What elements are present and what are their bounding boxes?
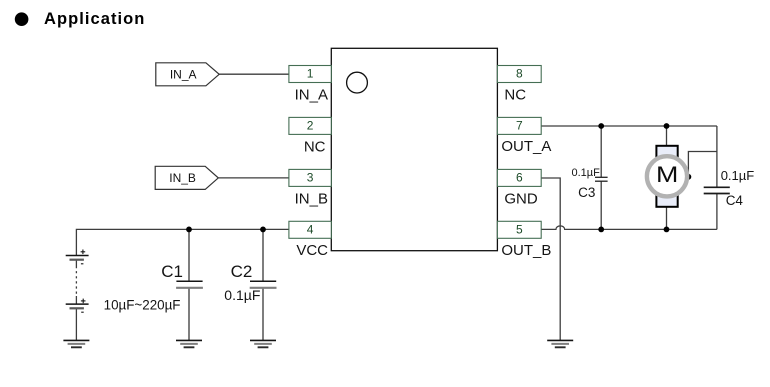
svg-text:IN_B: IN_B [169, 171, 196, 185]
svg-text:4: 4 [307, 223, 314, 237]
svg-text:VCC: VCC [296, 242, 328, 259]
svg-text:NC: NC [504, 87, 526, 104]
svg-text:OUT_A: OUT_A [501, 138, 551, 155]
svg-text:7: 7 [516, 119, 523, 133]
svg-text:NC: NC [304, 138, 326, 155]
svg-text:IN_B: IN_B [295, 190, 328, 207]
svg-text:6: 6 [516, 171, 523, 185]
svg-text:GND: GND [504, 190, 538, 207]
svg-text:C4: C4 [726, 193, 744, 208]
svg-text:0.1µF: 0.1µF [224, 287, 260, 303]
svg-text:C2: C2 [231, 262, 253, 281]
svg-text:0.1µF: 0.1µF [572, 167, 601, 179]
svg-text:IN_A: IN_A [295, 87, 328, 104]
svg-text:C1: C1 [161, 262, 183, 281]
svg-text:C3: C3 [578, 185, 595, 200]
svg-text:0.1µF: 0.1µF [721, 168, 755, 183]
svg-text:3: 3 [307, 171, 314, 185]
svg-text:IN_A: IN_A [170, 68, 197, 82]
svg-text:Application: Application [44, 10, 145, 28]
svg-text:M: M [656, 163, 678, 187]
svg-text:2: 2 [307, 119, 314, 133]
svg-text:5: 5 [516, 223, 523, 237]
svg-text:1: 1 [307, 67, 314, 81]
svg-text:OUT_B: OUT_B [501, 242, 551, 259]
svg-text:10µF~220µF: 10µF~220µF [104, 298, 181, 313]
svg-text:8: 8 [516, 67, 523, 81]
